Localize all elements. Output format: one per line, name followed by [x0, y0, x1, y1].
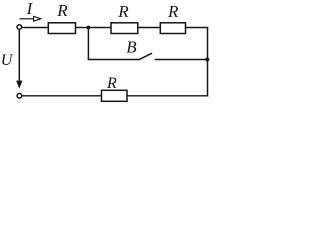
wire terminal to R1 — [22, 27, 49, 29]
svg-text:R: R — [56, 1, 68, 20]
switch B blade — [139, 53, 152, 60]
wire switch to node C — [155, 59, 208, 61]
current arrow I — [20, 16, 41, 21]
resistor R3 — [160, 23, 185, 34]
resistor R4 — [102, 90, 128, 101]
wire R4 to bottom-right corner — [127, 95, 208, 97]
svg-text:U: U — [1, 52, 14, 69]
wire right side vertical — [207, 27, 209, 97]
svg-text:R: R — [167, 2, 179, 21]
wire R2 to R3 — [138, 27, 161, 29]
wire terminal to R4 — [22, 95, 102, 97]
voltage arrow U — [17, 30, 22, 88]
wire branch to switch — [88, 59, 139, 61]
svg-text:R: R — [106, 75, 117, 92]
svg-text:I: I — [26, 0, 34, 18]
svg-text:R: R — [117, 2, 129, 21]
node C junction dot — [205, 58, 209, 62]
node A junction dot — [87, 26, 91, 30]
terminal top-left — [17, 25, 22, 30]
wire R1 to node A — [76, 27, 89, 29]
resistor R1 — [48, 23, 75, 34]
wire R3 to top-right corner — [186, 27, 209, 29]
resistor R2 — [111, 23, 138, 34]
svg-text:B: B — [126, 38, 137, 57]
terminal bottom-left — [17, 94, 22, 99]
wire node A down — [87, 28, 89, 60]
wire node A to R2 — [88, 27, 111, 29]
